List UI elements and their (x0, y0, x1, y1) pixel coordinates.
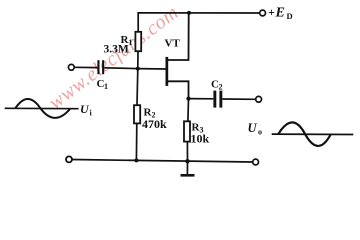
svg-text:www.elecfans.com: www.elecfans.com (45, 1, 183, 114)
terminal input (68, 64, 74, 70)
svg-text:VT: VT (165, 38, 181, 50)
input waveform axis (5, 107, 79, 109)
label C1 (97, 78, 109, 91)
label +E_D (268, 5, 293, 21)
svg-text:E: E (275, 6, 285, 21)
label 10k (191, 132, 210, 146)
input sine wave (15, 99, 70, 118)
terminal bottom-left (66, 156, 72, 162)
resistor R2 (134, 69, 140, 161)
svg-text:1: 1 (104, 82, 108, 91)
capacitor C1 (97, 60, 104, 74)
label Uo (248, 121, 263, 137)
svg-text:1: 1 (129, 38, 133, 47)
svg-text:o: o (258, 128, 262, 137)
node R3-rail junction (185, 159, 189, 163)
svg-text:U: U (80, 102, 90, 116)
label R1 (121, 34, 133, 47)
svg-text:D: D (287, 11, 293, 21)
output sine wave (278, 122, 330, 146)
svg-text:3.3M: 3.3M (104, 44, 129, 56)
label VT (165, 38, 181, 50)
label C2 (211, 79, 223, 92)
wire base node to transistor base (138, 68, 166, 70)
svg-text:U: U (248, 121, 258, 135)
label 470k (142, 117, 167, 131)
transistor VT (166, 13, 189, 99)
svg-text:10k: 10k (191, 132, 210, 146)
output waveform axis (272, 133, 354, 135)
resistor R1 (135, 32, 141, 51)
ground (181, 161, 195, 176)
wire top supply rail (138, 13, 260, 32)
wire R1 bottom to base node (137, 51, 139, 68)
svg-text:470k: 470k (142, 117, 167, 131)
node base junction (136, 67, 140, 71)
terminal +ED (260, 10, 266, 16)
wire C2 to output terminal (222, 98, 255, 100)
node collector-rail junction (187, 11, 191, 15)
terminal output (256, 96, 262, 102)
node R2-rail junction (134, 158, 138, 162)
svg-text:2: 2 (219, 83, 223, 92)
label Ui (80, 102, 93, 118)
wire input to C1 (74, 66, 97, 68)
svg-text:i: i (90, 109, 93, 118)
watermark www.elecfans.com (45, 1, 183, 114)
wire bottom rail (72, 160, 253, 163)
wire emitter node to C2 (189, 98, 214, 100)
capacitor C2 (213, 91, 222, 108)
svg-text:+: + (268, 5, 275, 19)
node emitter junction (186, 97, 190, 101)
resistor R3 (184, 99, 190, 162)
terminal bottom-right (253, 159, 259, 165)
label 3.3M (104, 44, 129, 56)
label R3 (192, 122, 204, 135)
wire C1 to base node (104, 67, 138, 70)
label R2 (144, 107, 156, 120)
